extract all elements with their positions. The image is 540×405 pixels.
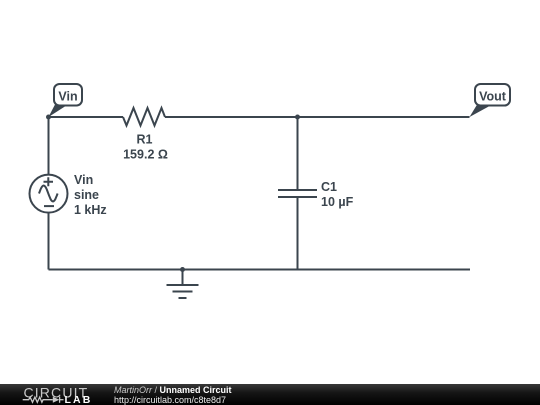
svg-text:C1: C1 [321,180,337,194]
svg-text:Vout: Vout [479,89,507,103]
junction: ground tap on bottom net [180,267,185,272]
wire: source V bottom pin down to bottom net [48,213,50,270]
wire: capacitor C1 top lead from node B [297,117,299,190]
svg-text:1 kHz: 1 kHz [74,203,107,217]
wire: resistor R1 right terminal to Vout open end [165,116,470,118]
wire: left vertical from node A down to source V top pin [48,117,50,175]
voltage source Vin (sine) [30,175,68,213]
wire: bottom net from left corner to open right end [49,269,471,271]
svg-text:sine: sine [74,188,99,202]
svg-text:Vin: Vin [74,173,93,187]
attribution text [114,386,232,405]
ground [167,270,199,299]
capacitor C1 [278,190,317,197]
CircuitLab logo [0,384,100,405]
svg-text:Vin: Vin [58,89,77,103]
svg-text:LAB: LAB [65,394,93,405]
wire: capacitor C1 bottom lead to bottom net [297,197,299,270]
resistor R1 [123,108,165,126]
svg-text:159.2 Ω: 159.2 Ω [123,148,168,162]
svg-text:R1: R1 [137,133,153,147]
junction node A (Vin net) [46,115,51,120]
net label tag Vin [49,84,83,117]
footer bar [0,384,540,405]
wire: top net from node A to resistor R1 left terminal [49,116,124,118]
svg-text:10 µF: 10 µF [321,195,354,209]
net label tag Vout [470,84,511,117]
junction node B (Vout net, cap top) [295,115,300,120]
